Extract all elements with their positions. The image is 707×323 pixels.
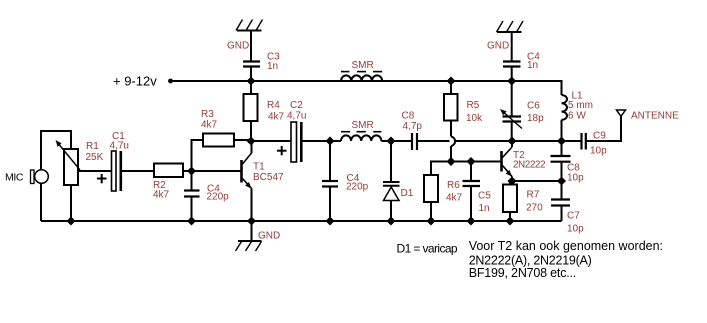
node base T1 — [187, 167, 196, 176]
wire rail to R4 — [250, 81, 252, 94]
inductor L1 — [562, 95, 568, 120]
capacitor C4 1n right — [503, 62, 521, 67]
wire R7 top — [509, 181, 511, 185]
svg-text:4k7: 4k7 — [268, 112, 285, 123]
inductor SMR top — [341, 72, 382, 81]
wire C4b to ground rail — [329, 188, 331, 222]
svg-text:R3: R3 — [201, 109, 214, 120]
capacitor C2 electrolytic — [277, 122, 303, 162]
wire ground rail bottom — [41, 220, 562, 222]
wire T1 base — [192, 170, 241, 172]
node tank-T1col — [247, 137, 256, 146]
node rail-D1 — [387, 217, 396, 226]
svg-text:220p: 220p — [346, 182, 369, 193]
wire crossover to C9 — [456, 140, 581, 142]
wire R1 bottom — [70, 185, 72, 221]
wire T2 emitter line — [512, 180, 562, 182]
svg-text:R7: R7 — [527, 190, 540, 201]
potentiometer R1 — [56, 140, 81, 185]
antenna symbol — [617, 110, 626, 116]
svg-text:5 mm: 5 mm — [568, 100, 593, 111]
wire node to C2 — [251, 140, 291, 142]
node tank-T2col — [508, 137, 517, 146]
wire ground top-left vertical — [250, 31, 252, 61]
node power terminal dot — [168, 79, 173, 84]
svg-text:4,7u: 4,7u — [287, 111, 306, 122]
node rail-R5 — [447, 77, 456, 86]
svg-text:Voor T2 kan ook genomen worden: Voor T2 kan ook genomen worden: — [469, 239, 663, 253]
capacitor C5 — [463, 181, 481, 186]
wire T2 base line — [431, 162, 501, 176]
wire mic loop top — [41, 131, 71, 170]
svg-text:4k7: 4k7 — [201, 120, 218, 131]
wire C2 to tank node — [303, 140, 342, 142]
wire L1 bottom to tank node — [561, 120, 563, 141]
svg-text:BF199, 2N708 etc...: BF199, 2N708 etc... — [469, 266, 576, 280]
wire D1 node down — [390, 141, 392, 181]
svg-text:BC547: BC547 — [253, 172, 284, 183]
wire C8 to crossover — [418, 140, 450, 142]
svg-text:SMR: SMR — [352, 60, 374, 71]
wire rail corner down to L1 — [561, 81, 563, 95]
svg-text:C9: C9 — [593, 131, 606, 142]
svg-text:18p: 18p — [527, 113, 544, 124]
svg-text:C5: C5 — [478, 191, 491, 202]
svg-text:R4: R4 — [267, 100, 280, 111]
wire rail down to C6 — [511, 81, 513, 116]
ground GND top-right — [497, 21, 524, 32]
capacitor C1 electrolytic — [97, 151, 122, 191]
node base T2-C5 — [467, 157, 476, 166]
transistor T2 2N2222 — [502, 141, 513, 181]
resistor R4 — [244, 94, 258, 121]
node base T2-R5 — [447, 157, 456, 166]
svg-text:D1: D1 — [401, 188, 414, 199]
svg-text:4k7: 4k7 — [446, 193, 463, 204]
wire R4 to node collector T1 — [250, 121, 252, 142]
svg-text:C8: C8 — [402, 111, 415, 122]
svg-text:C7: C7 — [567, 211, 580, 222]
inductor SMR bottom — [341, 132, 381, 141]
wire R7 to ground rail — [509, 212, 511, 221]
wire C8b to emitter node — [561, 163, 563, 182]
svg-text:10p: 10p — [567, 224, 584, 235]
svg-text:10k: 10k — [466, 113, 483, 124]
capacitor C7 10p — [551, 200, 570, 206]
capacitor C8 10p right — [551, 156, 571, 162]
svg-text:C2: C2 — [290, 100, 303, 111]
capacitor C4 220p left — [184, 191, 200, 197]
wire C4b down from tank node — [329, 141, 331, 180]
svg-text:4,7u: 4,7u — [110, 141, 129, 152]
svg-text:1n: 1n — [527, 60, 538, 71]
svg-text:GND: GND — [227, 41, 249, 52]
wire R6 to ground rail — [430, 202, 432, 221]
wire rail to R5 — [450, 81, 452, 94]
microphone MIC — [31, 170, 49, 184]
svg-text:T1: T1 — [253, 162, 265, 173]
capacitor C4 220p middle — [322, 181, 338, 187]
svg-text:6 W: 6 W — [568, 111, 586, 122]
svg-text:GND: GND — [258, 231, 280, 242]
node tank-L1 — [557, 137, 566, 146]
svg-text:R1: R1 — [86, 141, 99, 152]
node rail-R1 — [67, 217, 76, 226]
wire C5 to ground rail — [470, 187, 472, 221]
wire emitter node down to C7 — [561, 181, 563, 199]
capacitor C6 variable — [500, 109, 522, 129]
svg-text:10p: 10p — [567, 173, 584, 184]
wire tank node down to C8b — [561, 141, 563, 155]
svg-text:+ 9-12v: + 9-12v — [113, 74, 157, 89]
wire crossover hop arc — [451, 137, 455, 147]
wire power rail +9-12v — [171, 80, 563, 82]
wire C1 to R2 — [122, 170, 154, 172]
node rail-R4 — [247, 77, 256, 86]
node rail-C5 — [467, 217, 476, 226]
wire D1 to ground rail — [390, 201, 392, 222]
ground GND top-left — [236, 20, 263, 31]
svg-text:C6: C6 — [527, 101, 540, 112]
svg-text:270: 270 — [526, 203, 543, 214]
svg-text:MIC: MIC — [5, 171, 24, 183]
node rail-C4c — [507, 77, 516, 86]
node rail-T1em — [247, 217, 256, 226]
resistor R5 — [444, 94, 458, 121]
wire C4c to rail — [511, 67, 513, 81]
node rail-R6 — [427, 217, 436, 226]
wire ground top-right vertical — [511, 32, 513, 61]
node emitter T2 — [508, 177, 517, 186]
svg-text:1n: 1n — [267, 61, 278, 72]
resistor R3 — [203, 134, 234, 147]
wire arc to base node T2 — [450, 146, 452, 162]
wire SMR2 to D1 node — [381, 140, 391, 142]
node tank-C4b — [326, 137, 335, 146]
ground GND bottom — [236, 221, 262, 251]
wire R1 wiper to C1 — [78, 170, 112, 172]
svg-text:R6: R6 — [447, 180, 460, 191]
node rail-C4b — [326, 217, 335, 226]
wire C3 to rail — [250, 67, 252, 81]
svg-text:GND: GND — [487, 41, 509, 52]
svg-text:ANTENNE: ANTENNE — [631, 111, 679, 122]
wire C7 to ground rail — [561, 207, 563, 222]
svg-text:25K: 25K — [86, 152, 104, 163]
transistor T1 BC547 — [242, 141, 252, 221]
wire C4a to ground rail — [191, 197, 193, 221]
svg-text:2N2222: 2N2222 — [513, 160, 546, 171]
wire R3 left bend — [192, 140, 204, 190]
resistor R6 — [424, 175, 438, 202]
diode D1 varicap — [383, 182, 400, 201]
node dots — [67, 77, 567, 226]
svg-text:D1 = varicap: D1 = varicap — [397, 242, 458, 256]
wire R2 to base node — [183, 170, 192, 172]
capacitor C3 — [243, 62, 260, 67]
wire R3 right to node — [234, 139, 251, 141]
capacitor C8 4,7p — [412, 133, 417, 150]
wire C5 top — [470, 162, 472, 181]
svg-text:1n: 1n — [479, 203, 490, 214]
svg-text:10p: 10p — [590, 146, 607, 157]
node emitter-C8b — [557, 177, 566, 186]
svg-text:4k7: 4k7 — [153, 190, 170, 201]
capacitor C9 10p — [582, 133, 586, 150]
wire mic bottom — [40, 183, 42, 221]
node tank-D1 — [387, 137, 396, 146]
svg-text:4,7p: 4,7p — [403, 121, 423, 132]
node rail-R7 — [506, 217, 515, 226]
wire R5 down to crossover arc — [450, 121, 452, 137]
wire D1 node to C8 — [391, 140, 411, 142]
wire C6 to tank wire — [511, 123, 513, 142]
node rail-C4a — [187, 217, 196, 226]
svg-text:220p: 220p — [207, 192, 230, 203]
wire C9 to antenna — [587, 117, 622, 142]
svg-text:R5: R5 — [467, 100, 480, 111]
svg-text:SMR: SMR — [352, 120, 374, 131]
resistor R7 — [503, 185, 517, 213]
resistor R2 — [154, 164, 183, 178]
